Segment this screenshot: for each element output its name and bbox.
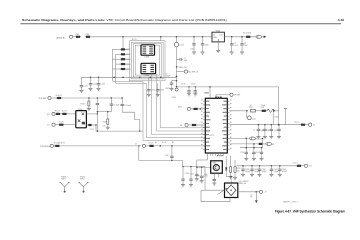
svg-text:SYN ADDR: SYN ADDR xyxy=(40,145,51,148)
wire loop around U203 U204 outer xyxy=(130,41,166,81)
capacitor C250 xyxy=(277,125,280,137)
capacitor C261 xyxy=(270,166,280,175)
connector pad xyxy=(185,123,188,126)
capacitor C225 series xyxy=(96,98,99,131)
resistor R222 xyxy=(148,145,155,147)
svg-text:C2 R5: C2 R5 xyxy=(181,83,186,85)
wire xyxy=(90,77,92,80)
svg-text:C250: C250 xyxy=(274,130,278,132)
wire H1 xyxy=(97,111,111,113)
inductor L208 xyxy=(261,110,268,112)
svg-text:10uH: 10uH xyxy=(261,105,266,107)
wire VCO bottom loop xyxy=(201,193,230,202)
wire xyxy=(53,145,55,147)
wire left bus B xyxy=(115,54,117,83)
capacitor C223 xyxy=(97,81,105,89)
connector pad 5F xyxy=(230,93,233,96)
svg-text:C233: C233 xyxy=(204,45,208,47)
wire regulator output xyxy=(224,36,256,38)
capacitor C247b xyxy=(257,125,260,137)
diode CR201 xyxy=(225,168,227,171)
ground xyxy=(216,51,220,53)
wire xyxy=(191,108,193,110)
capacitor C226b series xyxy=(110,98,120,112)
capacitor C222 xyxy=(89,81,97,89)
wire xyxy=(198,108,204,110)
ground xyxy=(106,127,110,129)
resistor R221 xyxy=(54,145,61,147)
capacitor C235 xyxy=(240,37,243,52)
wire xyxy=(125,68,129,70)
inductor L209 coil xyxy=(267,109,274,112)
wire osc bus xyxy=(95,125,97,131)
svg-text:L206: L206 xyxy=(85,34,89,36)
ground xyxy=(277,137,281,139)
varactor D201 xyxy=(273,110,275,113)
wire xyxy=(275,110,279,112)
wire rail B xyxy=(230,124,301,126)
wire stub xyxy=(240,147,262,149)
svg-text:C244: C244 xyxy=(172,97,176,99)
wire xyxy=(112,58,121,60)
svg-text:C245: C245 xyxy=(165,155,169,157)
ground xyxy=(193,94,197,96)
ground xyxy=(269,174,273,176)
wire osc out top xyxy=(86,113,97,115)
ground xyxy=(170,88,174,90)
wire stub C241 xyxy=(148,77,150,86)
svg-text:SHLD: SHLD xyxy=(61,179,66,181)
resistor R219 xyxy=(58,124,65,126)
wire xyxy=(125,58,129,60)
svg-text:C243: C243 xyxy=(165,88,169,90)
ground of U202 xyxy=(217,42,219,51)
ground xyxy=(229,177,233,179)
wire H2 to IC bus xyxy=(97,130,143,132)
wire xyxy=(188,87,190,89)
capacitor C248a xyxy=(194,89,197,94)
inductor L206 xyxy=(85,34,92,38)
connector pad TX xyxy=(52,123,55,126)
svg-text:FREQ 4S: FREQ 4S xyxy=(239,183,247,185)
svg-text:5R: 5R xyxy=(180,125,183,127)
shield symbol SH201 xyxy=(59,177,70,193)
svg-text:10K: 10K xyxy=(237,170,241,172)
wire xyxy=(262,143,265,145)
svg-text:R2 LR: R2 LR xyxy=(149,143,155,145)
wire osc out xyxy=(86,124,88,126)
svg-text:SHLD: SHLD xyxy=(80,179,85,181)
transistor Q201 buffer xyxy=(211,161,223,173)
svg-text:1R: 1R xyxy=(250,196,253,198)
wire xyxy=(196,124,205,126)
svg-text:REF_OSC: REF_OSC xyxy=(179,67,188,69)
connector pad xyxy=(50,144,53,147)
wire VCO output xyxy=(238,191,260,193)
ground xyxy=(147,94,151,96)
resistor R229 vertical xyxy=(234,167,236,172)
wire xyxy=(98,77,100,80)
wire xyxy=(73,36,75,38)
connector pad 5C xyxy=(309,123,312,126)
ground xyxy=(79,90,83,92)
resistor R220 vertical xyxy=(107,112,109,119)
wire bus step 1 xyxy=(112,81,205,140)
svg-text:C256: C256 xyxy=(185,173,189,175)
svg-text:47pF: 47pF xyxy=(204,174,208,176)
wire xyxy=(112,48,121,50)
inductor L205 xyxy=(75,34,82,38)
ground xyxy=(200,181,204,183)
capacitor C248 xyxy=(263,125,266,137)
capacitor C260 xyxy=(258,166,268,175)
capacitor C257 xyxy=(190,167,192,176)
connector pad 4T xyxy=(259,190,262,193)
wire xyxy=(125,48,129,50)
capacitor C245 xyxy=(165,146,174,161)
wire xyxy=(201,189,205,191)
svg-text:C2 R5: C2 R5 xyxy=(191,83,196,85)
wire staircase xyxy=(122,112,140,131)
ground xyxy=(258,174,262,176)
node top rail xyxy=(122,36,124,38)
resistor R230 xyxy=(56,97,63,99)
capacitor C241 xyxy=(147,87,155,95)
wire xyxy=(146,145,149,147)
wire U201 top pin to loop xyxy=(209,87,211,95)
ground xyxy=(260,158,264,160)
svg-text:100pF: 100pF xyxy=(262,171,268,173)
wire xyxy=(305,124,308,126)
wire xyxy=(55,124,59,126)
svg-text:C249: C249 xyxy=(266,130,270,132)
wire xyxy=(188,124,191,126)
wire xyxy=(125,63,129,65)
capacitor C231 xyxy=(172,80,177,82)
wire xyxy=(54,113,57,115)
wire stub from rail to loops xyxy=(160,37,162,41)
arrow to ground xyxy=(255,192,258,203)
wire corner xyxy=(182,161,184,167)
svg-text:UNSW B+: UNSW B+ xyxy=(56,38,66,40)
ground xyxy=(250,174,254,176)
resistor R227 xyxy=(258,143,264,145)
ground xyxy=(256,137,260,139)
wire SYN to right xyxy=(60,145,141,147)
svg-text:C2: C2 xyxy=(244,43,246,45)
wire down to rail B xyxy=(272,112,274,125)
wire column xyxy=(225,156,227,168)
capacitor C252b xyxy=(260,148,263,159)
svg-text:R225: R225 xyxy=(249,107,253,109)
svg-text:MAEPF-27849-O: MAEPF-27849-O xyxy=(283,200,299,203)
IC U204 xyxy=(141,63,156,73)
svg-text:ADJ_REF_LR: ADJ_REF_LR xyxy=(188,70,199,73)
svg-text:Q202: Q202 xyxy=(252,119,256,121)
svg-text:C2 1.5: C2 1.5 xyxy=(293,163,298,165)
svg-text:C221: C221 xyxy=(83,86,87,88)
capacitor C234 xyxy=(230,37,233,52)
capacitor C253 xyxy=(196,167,198,171)
wire to VCO left xyxy=(204,167,206,191)
wire Q201 pin2 xyxy=(218,173,220,177)
wire Q202 xyxy=(246,111,248,118)
ground xyxy=(212,183,216,185)
capacitor C254 xyxy=(201,167,203,173)
svg-text:R229: R229 xyxy=(237,168,241,170)
connector pad xyxy=(187,107,190,110)
connector to sheet 2 xyxy=(256,35,262,38)
ground xyxy=(187,94,191,96)
svg-text:C2: C2 xyxy=(184,58,186,60)
svg-text:100pF: 100pF xyxy=(254,171,260,173)
capacitor C253 xyxy=(195,171,198,179)
net label REF OSC xyxy=(177,66,179,68)
svg-text:100pF: 100pF xyxy=(273,171,279,173)
svg-text:L208: L208 xyxy=(260,107,264,109)
ground xyxy=(233,178,237,180)
svg-text:C2 100pF: C2 100pF xyxy=(124,105,131,107)
svg-text:L2 R5: L2 R5 xyxy=(179,44,184,46)
pad 5F REF xyxy=(215,94,217,96)
resistor R228 vertical xyxy=(230,167,232,172)
svg-text:OUT: OUT xyxy=(220,34,223,36)
wire stub C242 xyxy=(157,83,159,86)
connector pad xyxy=(48,96,51,99)
ground xyxy=(230,52,234,54)
wire mid rail xyxy=(81,76,176,78)
wire Q201 emitter xyxy=(213,173,215,178)
wire to row B loop xyxy=(261,138,263,147)
connector pad ADJ REF xyxy=(177,71,185,73)
ground xyxy=(241,174,245,176)
inductor L211 xyxy=(296,165,303,167)
svg-text:R2: R2 xyxy=(172,142,174,144)
ground xyxy=(195,179,199,181)
wire xyxy=(255,110,261,112)
crystal oscillator Y201 xyxy=(76,111,87,128)
wire xyxy=(67,113,76,115)
wire from SYN area xyxy=(138,146,140,161)
wire left bus A xyxy=(111,49,113,81)
resistor R224 xyxy=(191,124,198,126)
wire xyxy=(125,53,129,55)
capacitor C255 xyxy=(213,179,215,180)
IC U203 xyxy=(141,45,155,55)
svg-text:0.1uF: 0.1uF xyxy=(234,45,238,47)
capacitor C259 xyxy=(250,166,260,175)
wire VCO feed xyxy=(226,176,231,178)
svg-text:R2 1.5: R2 1.5 xyxy=(295,122,300,124)
wire row C xyxy=(230,137,250,139)
capacitor C247 xyxy=(187,89,190,94)
wire row1 extension xyxy=(97,97,122,99)
ground xyxy=(192,52,196,54)
svg-text:C252: C252 xyxy=(256,152,260,154)
capacitor C249 xyxy=(270,125,273,137)
capacitor C251 xyxy=(245,148,248,159)
wire to Q201 xyxy=(197,166,211,168)
svg-text:U203: U203 xyxy=(145,56,150,58)
svg-text:TX LR: TX LR xyxy=(59,121,65,123)
svg-text:PLL ADDR LR: PLL ADDR LR xyxy=(54,142,66,145)
capacitor C226 xyxy=(87,124,93,126)
svg-text:100pF: 100pF xyxy=(245,171,251,173)
resistor R223 xyxy=(192,108,199,110)
svg-text:Q201: Q201 xyxy=(213,162,217,164)
svg-text:4-49: 4-49 xyxy=(338,18,344,22)
resistor R212 xyxy=(120,53,127,55)
wire 16.8MHz xyxy=(61,97,97,99)
ground xyxy=(263,137,267,139)
svg-text:TX: TX xyxy=(47,125,50,127)
svg-text:4T: 4T xyxy=(265,192,268,194)
ground xyxy=(278,174,282,176)
capacitor C262 xyxy=(278,166,288,175)
wire xyxy=(112,68,121,70)
svg-text:U204: U204 xyxy=(145,75,150,77)
wire to U201 xyxy=(154,145,206,147)
svg-text:5R: 5R xyxy=(309,166,312,168)
wire rail F xyxy=(237,165,297,167)
resistor R216 xyxy=(88,101,90,106)
wire xyxy=(64,124,76,126)
capacitor C232 xyxy=(192,37,195,52)
svg-text:5F REF: 5F REF xyxy=(234,95,241,97)
wire bus step 3 xyxy=(151,74,205,135)
VCO module U205 xyxy=(225,183,238,198)
svg-text:16.8 LR: 16.8 LR xyxy=(56,95,63,97)
resistor R214 xyxy=(120,63,127,65)
wire row A xyxy=(229,110,248,112)
resistor R213 xyxy=(120,58,127,60)
connector pad 4R xyxy=(52,112,55,115)
svg-text:C251: C251 xyxy=(240,152,244,154)
wire loop 3 xyxy=(133,44,161,77)
wire down to cluster xyxy=(253,144,255,148)
resistor R215 xyxy=(120,68,127,70)
inductor L207 xyxy=(245,36,252,38)
ground xyxy=(97,88,101,90)
connector LOCK xyxy=(250,137,256,140)
svg-text:10uF: 10uF xyxy=(244,45,248,47)
svg-text:U202: U202 xyxy=(216,31,220,33)
wire xyxy=(92,124,97,126)
capacitor C256 xyxy=(181,176,184,185)
ground xyxy=(181,185,185,187)
shield symbol SH202 xyxy=(78,177,89,193)
svg-text:MOD: MOD xyxy=(178,107,183,109)
ground xyxy=(240,52,244,54)
svg-text:C248: C248 xyxy=(260,130,264,132)
capacitor C258 xyxy=(241,166,251,175)
svg-text:4R: 4R xyxy=(47,114,50,116)
inductor L210 xyxy=(300,124,307,126)
svg-text:5L: 5L xyxy=(135,143,137,145)
svg-text:C2 LR: C2 LR xyxy=(162,142,167,144)
svg-text:C2: C2 xyxy=(250,194,252,196)
svg-text:Y201: Y201 xyxy=(78,109,82,111)
wire loop 2 xyxy=(131,42,163,79)
wire bus step 4 xyxy=(157,74,206,131)
resistor R225 xyxy=(250,110,255,112)
test point stub xyxy=(284,109,287,125)
wire xyxy=(265,110,268,112)
ground xyxy=(244,158,248,160)
svg-text:C232: C232 xyxy=(190,49,194,51)
wire row D xyxy=(230,143,259,145)
wire xyxy=(301,165,304,167)
svg-text:Figure 4-67. VHF Synthesizer S: Figure 4-67. VHF Synthesizer Schematic D… xyxy=(275,210,345,214)
wire feedback loop xyxy=(177,87,279,125)
capacitor C256 xyxy=(182,167,184,176)
transistor Q202 xyxy=(247,116,251,120)
svg-text:R216: R216 xyxy=(81,104,85,106)
svg-text:10K: 10K xyxy=(103,125,107,127)
wire loop 4 xyxy=(135,45,159,75)
svg-text:C227: C227 xyxy=(90,129,94,131)
svg-text:100pF: 100pF xyxy=(282,171,288,173)
wire pins down xyxy=(207,155,209,160)
wire top rail xyxy=(92,36,213,38)
svg-text:C2: C2 xyxy=(253,130,255,132)
svg-text:C257: C257 xyxy=(196,176,200,178)
svg-text:RL LR: RL LR xyxy=(62,111,68,113)
ground xyxy=(269,137,273,139)
wire bus step 2 xyxy=(116,83,206,137)
connector J2 pin xyxy=(69,35,72,38)
ground xyxy=(252,158,256,160)
resistor R217 xyxy=(55,113,62,115)
svg-text:C223: C223 xyxy=(101,84,105,86)
wire corner down xyxy=(80,77,82,82)
resistor R218 xyxy=(61,113,68,115)
svg-text:5C: 5C xyxy=(313,125,316,127)
capacitor C221 xyxy=(80,83,88,91)
svg-text:C2: C2 xyxy=(234,43,236,45)
wire arrow out xyxy=(262,36,264,38)
wire tap to bead column xyxy=(122,37,124,49)
wire bus step 5 xyxy=(160,81,205,128)
svg-text:R2: R2 xyxy=(155,142,157,144)
test point pad xyxy=(175,88,178,91)
header rule xyxy=(21,23,342,25)
wire down to cluster xyxy=(245,138,247,147)
capacitor C227b series xyxy=(121,98,131,112)
wire bottom rail xyxy=(183,166,205,168)
connector 4R xyxy=(266,142,272,145)
svg-text:L205: L205 xyxy=(75,34,79,36)
capacitor C230 stub xyxy=(177,58,181,60)
ground xyxy=(87,109,91,111)
wire xyxy=(116,63,121,65)
varactor arrow xyxy=(218,189,227,195)
svg-text:4R: 4R xyxy=(272,144,275,146)
ground xyxy=(156,94,160,96)
svg-text:R5 (5.0V): R5 (5.0V) xyxy=(243,33,251,35)
capacitor C254 xyxy=(200,173,203,181)
svg-text:C2: C2 xyxy=(166,74,168,76)
svg-text:15pF: 15pF xyxy=(184,60,188,62)
regulator U202 xyxy=(212,31,224,42)
capacitor C252 xyxy=(252,148,255,159)
wire xyxy=(194,87,196,89)
svg-text:16.8 MHZ: 16.8 MHZ xyxy=(39,98,48,100)
capacitor C257 xyxy=(189,176,192,185)
wire xyxy=(116,53,121,55)
wire bottom left xyxy=(139,160,183,162)
resistor R211 xyxy=(120,48,127,50)
